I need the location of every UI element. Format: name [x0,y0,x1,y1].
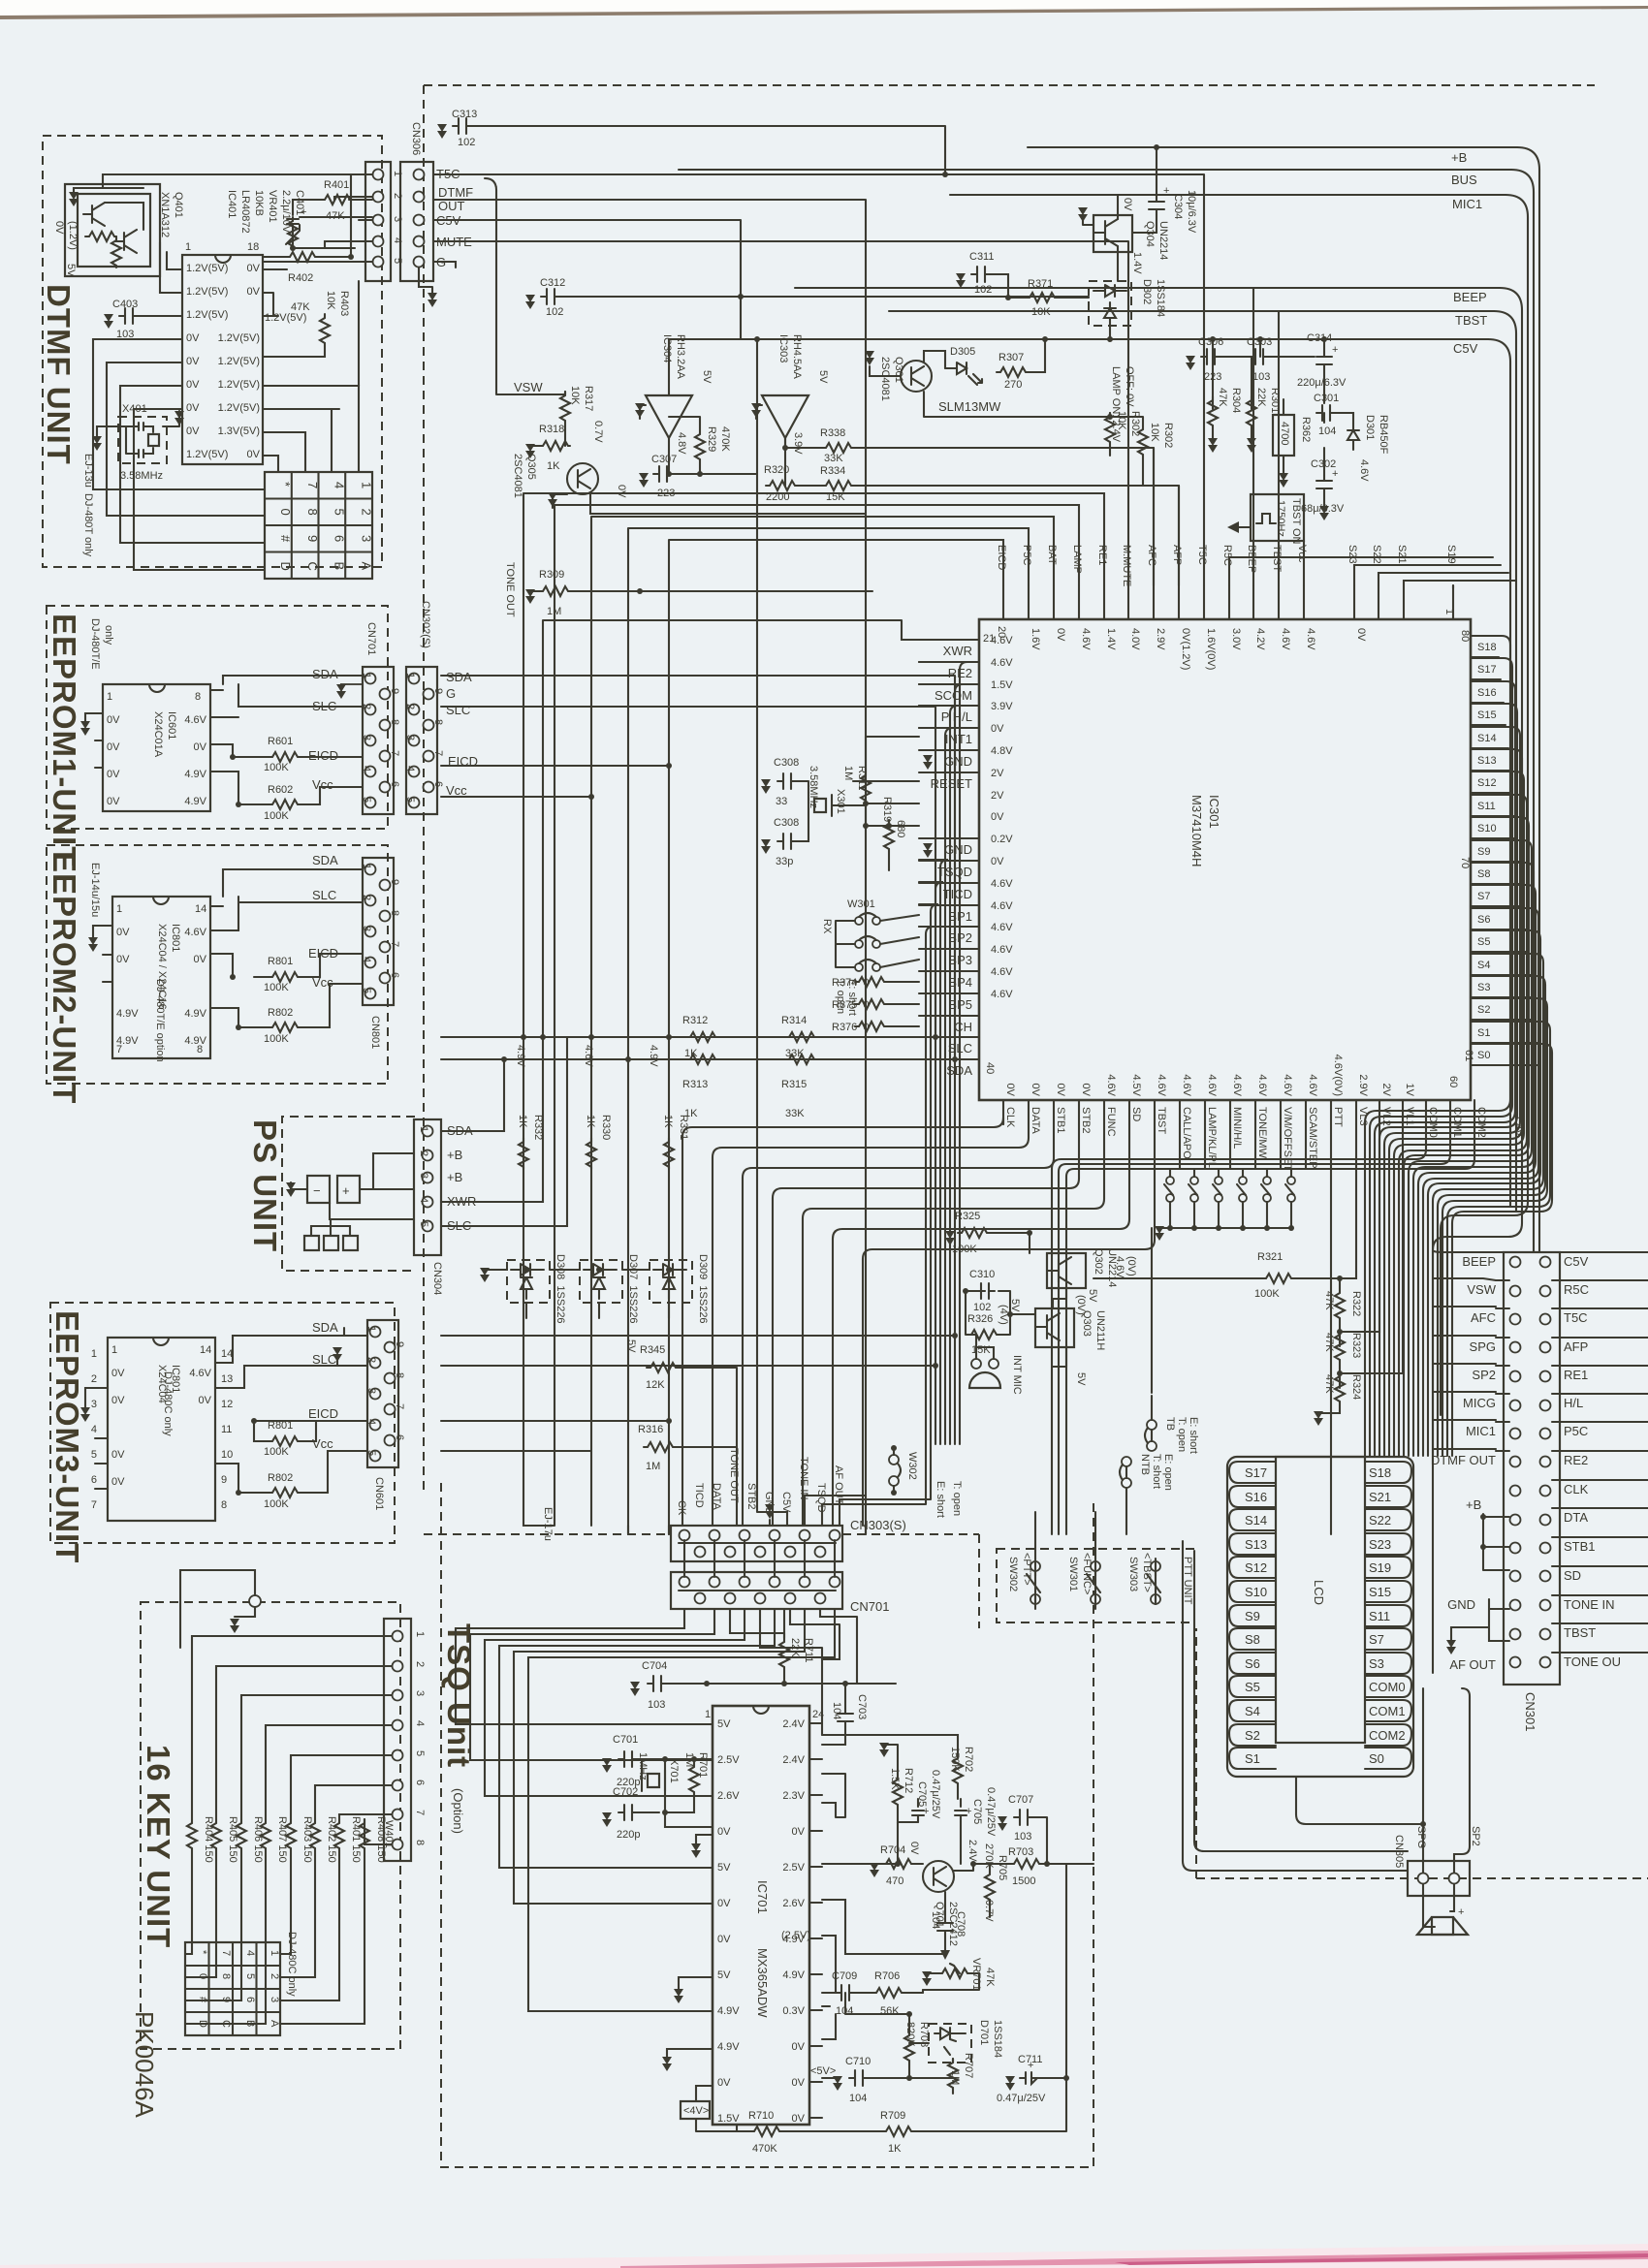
connector CN301 pin row 1 left [1510,1257,1521,1268]
connector CN303 pin bottom 3 [755,1547,766,1558]
wire S8 upper [1413,863,1534,1456]
svg-text:47K: 47K [1323,1333,1335,1352]
wire W302 stubs [893,1448,895,1493]
svg-text:9: 9 [305,535,320,542]
wire DTMF OUT inside [334,197,372,200]
svg-text:10μ/6.3V: 10μ/6.3V [1186,190,1197,234]
svg-text:SLC: SLC [312,888,336,902]
junction dots eeprom2 [236,1024,241,1030]
svg-text:DTMF UNIT: DTMF UNIT [41,284,77,465]
svg-text:GND: GND [1447,1597,1475,1612]
svg-text:R317: R317 [583,386,594,411]
wire G net [434,262,456,268]
svg-text:R321: R321 [1257,1251,1283,1263]
connector CN302S pin 5 [409,798,420,808]
connector CN301 pin row 2 right [1540,1286,1551,1297]
connector CN302S pin 3 [409,736,420,746]
wire stub pin TICD [919,882,979,884]
wire C703 [822,1684,845,1745]
svg-text:C307: C307 [651,454,677,465]
svg-text:3.9V: 3.9V [991,701,1013,712]
svg-text:R407 150: R407 150 [276,1816,288,1863]
svg-text:470: 470 [886,1875,903,1887]
svg-text:S15: S15 [1369,1585,1391,1599]
svg-text:104: 104 [930,1911,941,1929]
wire top pin AFC [1153,585,1155,619]
connector CN301 pin row 4 right [1540,1342,1551,1353]
svg-text:R408 150: R408 150 [375,1816,387,1863]
wire TB link [1151,1228,1153,1441]
svg-text:R801: R801 [268,956,293,967]
connector CN701 pin top 3 [740,1577,750,1588]
svg-text:C707: C707 [1008,1794,1033,1806]
diode pair D309 1SS226 [650,1260,692,1303]
svg-text:S0: S0 [1477,1050,1490,1061]
svg-text:IC801: IC801 [170,1365,181,1393]
ground at CN303 GND pin [765,1504,775,1519]
IC IC301 M37410M4H body [979,619,1471,1100]
box 4V [681,2101,710,2119]
wire stub pin RESET [919,772,979,773]
wire VL3 to R321 [1340,1272,1356,1278]
wire bottom pin DATA [1028,1100,1030,1124]
svg-text:S10: S10 [1245,1585,1267,1599]
svg-text:4.6V: 4.6V [1231,1074,1243,1096]
ground EEPROM3 [80,1407,90,1422]
wire AF OUT link [840,1444,931,1526]
svg-text:2: 2 [392,193,403,199]
wire from CN301 DTA [1552,1507,1648,1509]
svg-text:Vcc: Vcc [446,783,467,798]
svg-text:0V: 0V [186,402,200,414]
connector CN701 pin bottom 4 [785,1593,796,1604]
wire battery [291,1182,307,1189]
svg-text:SP2: SP2 [1472,1368,1496,1382]
svg-text:C701: C701 [613,1734,638,1746]
svg-text:E: open: E: open [1162,1454,1174,1491]
ground at IC301 pin GND [923,755,933,770]
svg-text:S10: S10 [1477,823,1497,835]
connector CN301 pin row 11 right [1540,1543,1551,1554]
wire CN303 pin to CN701 5 [804,1540,806,1577]
svg-text:1.3V(5V): 1.3V(5V) [218,425,260,437]
svg-text:4.9V: 4.9V [782,1969,805,1981]
connector CN303 pin top 6 [830,1530,840,1541]
wire key col 8 route [280,1935,364,2024]
wire S8 lower [1471,883,1522,885]
svg-text:CN302(S): CN302(S) [420,601,431,648]
svg-text:4.6V: 4.6V [1280,628,1291,650]
wire top pin T5C [1203,585,1205,619]
svg-text:CN301: CN301 [1523,1692,1537,1731]
svg-text:T: open: T: open [1176,1417,1188,1452]
svg-text:8: 8 [394,1372,405,1378]
svg-text:STB2: STB2 [1080,1107,1092,1134]
resistor R401 150 [334,1819,344,1850]
svg-text:EICD: EICD [308,748,338,763]
keypad 16key DTMF [265,472,372,579]
wire Q301 emitter to R302 [924,392,1110,456]
svg-text:R316: R316 [638,1424,663,1435]
connector CN801 pin 1 [365,865,376,875]
wire into CN301 VSW [1496,1279,1509,1281]
transistor Q303 UN211H [1035,1308,1074,1347]
svg-text:4: 4 [361,957,372,962]
svg-text:S13: S13 [1245,1537,1267,1552]
svg-text:5: 5 [91,1449,97,1461]
svg-text:12K: 12K [646,1379,665,1391]
connector pin row 5 [373,257,384,268]
wire from CN301 RE1 [1552,1365,1648,1367]
svg-text:R318: R318 [539,424,564,435]
connector pin row 3 [373,215,384,226]
svg-text:R325: R325 [955,1211,980,1222]
wire C312 line [560,296,1089,298]
wire S11 upper [1399,795,1527,1456]
wire R704 Q701 [874,1864,1010,1871]
wire bottom pin STB2 [1078,1100,1080,1124]
svg-text:5V: 5V [701,370,713,384]
svg-text:Vcc: Vcc [1296,545,1308,563]
svg-text:3: 3 [91,1399,97,1410]
svg-text:S9: S9 [1245,1609,1260,1623]
svg-text:2.2μ/10V: 2.2μ/10V [280,190,292,234]
svg-text:1K: 1K [547,460,560,472]
wire AFC feeder [1153,448,1155,585]
svg-text:18: 18 [247,241,259,253]
svg-text:1: 1 [705,1709,711,1720]
svg-text:5V: 5V [1087,1289,1098,1303]
connector CN303 pin bottom 1 [695,1547,706,1558]
svg-text:0V: 0V [1122,198,1133,211]
svg-text:1.6V: 1.6V [1030,628,1041,650]
resistor R323 47K vertical [1335,1331,1345,1362]
svg-text:0V: 0V [908,1842,920,1855]
svg-text:0V: 0V [792,1826,806,1838]
svg-text:MICG: MICG [1463,1396,1496,1410]
svg-text:S23: S23 [1369,1537,1391,1552]
connector CN304 body [414,1119,441,1255]
svg-text:470K: 470K [719,426,731,452]
svg-text:470K: 470K [752,2143,777,2155]
wire gnd R309 [530,590,539,592]
connector CN303 pin bottom 4 [785,1547,796,1558]
svg-text:103: 103 [648,1699,665,1711]
svg-text:VR401: VR401 [267,190,278,223]
connector CN302S pin 8 [424,720,434,731]
wire SW301 up [1094,1512,1096,1609]
LCD segment box S10 [1229,1581,1276,1602]
svg-text:BEEP: BEEP [1462,1254,1496,1269]
wire Q401 top [74,188,143,230]
wire top pin BAT [1053,585,1055,619]
wire R chain [1318,1320,1347,1413]
connector CN305 pin SPG [1418,1874,1429,1884]
svg-text:5V: 5V [625,1339,637,1353]
wire MUTE net [434,241,1128,585]
wire C313 to T5C line [472,126,945,174]
svg-text:8: 8 [197,1044,203,1055]
wire DTMF drop end [865,1526,867,1534]
svg-text:10K: 10K [1031,306,1051,318]
wire SLC from CN302 [441,707,935,1037]
svg-text:COM1: COM1 [1369,1704,1406,1718]
svg-text:IC801: IC801 [170,924,181,952]
LCD segment box S17 [1229,1462,1276,1483]
svg-text:102: 102 [458,137,475,148]
svg-text:0V: 0V [1355,628,1367,642]
wire SDA long [441,1058,919,1060]
wire stub pin RE2 [919,661,979,663]
svg-text:0V: 0V [991,811,1004,823]
svg-text:0V: 0V [792,2077,806,2089]
wire S14 lower [1471,747,1508,749]
wire from CN301 AFP [1552,1337,1648,1339]
wire S7 upper [1418,885,1536,1456]
ground right of X401 [174,411,184,425]
svg-text:W302: W302 [906,1452,918,1480]
wire key col 7 route [280,1927,339,2000]
svg-text:S1: S1 [1477,1027,1490,1039]
svg-text:4.6V: 4.6V [1080,628,1092,650]
svg-text:TSQ Unit: TSQ Unit [441,1623,477,1768]
wire stub pin BP4 [919,970,979,972]
wire stub pin GND [919,837,979,839]
svg-text:S13: S13 [1477,755,1497,767]
wire R402 to W401 pin [315,1785,392,1819]
wire R407 to W401 pin [266,1725,392,1819]
wire battery to CN304 [311,1153,414,1236]
svg-text:4: 4 [91,1424,97,1435]
svg-text:VSW: VSW [1467,1282,1496,1297]
svg-text:0V: 0V [991,856,1004,867]
junction dots eeprom1 [236,802,241,807]
ground at SLC [333,1347,342,1362]
svg-text:2.9V: 2.9V [1155,628,1166,650]
connector CN601 pin 6 [385,1435,396,1446]
wire S6 upper [1423,908,1538,1456]
ground PS [286,1182,296,1197]
connector CN302S pin 7 [424,751,434,762]
svg-text:4.6V: 4.6V [1307,1074,1318,1096]
svg-text:C703: C703 [856,1694,868,1719]
svg-text:80: 80 [1459,630,1471,642]
svg-text:4.0V: 4.0V [1129,628,1141,650]
wire R5C feeder [1229,557,1493,585]
wire VR701 to R706 [907,1990,923,1993]
svg-text:0V: 0V [111,1395,125,1406]
wire TSQ left loop 6 [528,1609,835,2011]
svg-text:9: 9 [432,688,444,694]
svg-text:S18: S18 [1369,1465,1391,1480]
svg-text:2: 2 [404,704,416,709]
svg-text:SW302: SW302 [1007,1557,1019,1591]
wire S3 upper [1438,976,1545,1456]
svg-text:R312: R312 [682,1015,708,1026]
svg-text:1: 1 [392,171,403,176]
wire top pin S23 [1353,585,1355,619]
svg-text:100K: 100K [264,1446,289,1458]
PTT UNIT dashed box [997,1549,1194,1622]
svg-text:V/M/OFFSET: V/M/OFFSET [1282,1107,1293,1171]
wire C711 up [1043,1864,1066,2078]
svg-text:1: 1 [414,1631,426,1637]
svg-text:T5C: T5C [1196,545,1208,565]
wire C5V cluster [1213,339,1353,508]
wire R307 to C5V [1028,339,1045,372]
pin stub IC701 row 8 [809,1973,822,1975]
wire R401 to C401 [293,200,372,248]
wire key col 2 down [185,1888,216,1977]
svg-text:1K: 1K [517,1115,528,1128]
svg-text:C313: C313 [452,109,477,120]
svg-text:R326: R326 [967,1313,993,1325]
svg-text:S3: S3 [1369,1656,1384,1671]
wire C5V drop to IC304 [668,339,670,395]
svg-text:2V: 2V [991,790,1004,802]
svg-text:3: 3 [392,216,403,222]
wire C5V from CN306 [434,220,741,339]
svg-text:TB: TB [1164,1417,1176,1431]
svg-text:EJ-17u: EJ-17u [542,1507,554,1541]
wire S2 upper [1442,998,1547,1456]
connector CN601 pin 3 [370,1389,381,1400]
wire SLC eeprom1 [210,684,363,717]
LCD segment box S9 [1229,1605,1276,1626]
svg-text:8: 8 [414,1840,426,1845]
svg-text:1: 1 [269,1950,280,1956]
connector CN801 pin 2 [365,896,376,906]
LCD segment box S4 [1229,1700,1276,1721]
wire LCD bottom to CN305 [1296,1777,1423,1824]
svg-text:<5V>: <5V> [810,2065,836,2077]
svg-text:DTMF: DTMF [438,185,473,200]
resistor R374 0 [855,977,886,987]
wire into CN301 MIC1 [1496,1421,1509,1423]
svg-text:70: 70 [1459,857,1471,868]
wire from CN301 R5C [1552,1279,1648,1281]
connector CN304 pin 5 SLC [423,1221,433,1232]
svg-text:S22: S22 [1371,545,1382,564]
wire CN701 feed2 [760,1609,822,1735]
svg-text:S17: S17 [1477,664,1497,676]
svg-text:0V: 0V [199,1395,212,1406]
svg-text:1: 1 [365,1326,377,1332]
wire EICD eeprom3 right [441,1420,669,1422]
wire stub pin P H/L [919,705,979,707]
svg-text:S8: S8 [1245,1632,1260,1647]
wire key column 2 [215,1850,217,1888]
svg-text:33K: 33K [785,1108,805,1119]
connector CN303 pin top 2 [710,1530,720,1541]
wire R708 D701 [845,1993,953,2094]
wire Q304 base stub [1083,219,1093,225]
svg-text:R374 0: R374 0 [832,977,870,989]
wire into CN301 SP2 [1496,1365,1509,1367]
wire S21 feeder [1404,581,1516,585]
wire S22 feeder [1379,573,1508,585]
svg-text:EEPROM2-UNIT: EEPROM2-UNIT [47,851,82,1104]
connector CN302S pin 6 [424,782,434,793]
wire C311 to R371 [991,274,1026,298]
switch pad pair 2 [1190,1177,1198,1184]
wire IC301 left pin drop 4 [919,728,953,1444]
IC IC401 LR40872 body [182,255,263,464]
svg-text:BEEP: BEEP [1453,290,1487,304]
wire bottom pin VL2 [1379,1100,1380,1124]
svg-text:S5: S5 [1477,936,1490,948]
svg-text:+: + [966,1806,971,1817]
svg-text:R703: R703 [1008,1846,1033,1858]
svg-text:1: 1 [359,482,373,488]
svg-text:4.9V: 4.9V [184,1008,206,1020]
wire S4 lower [1471,974,1532,976]
connector CN601 pin 2 [370,1358,381,1369]
connector CN304 pin 3 +B [423,1173,433,1183]
wire arrow TBST [1239,526,1251,528]
wire top pin S19 [1452,585,1454,619]
LCD segment box S16 [1229,1486,1276,1507]
svg-text:TICD: TICD [943,887,972,901]
svg-text:A: A [359,562,373,571]
svg-text:0V(1.2V): 0V(1.2V) [1180,628,1191,670]
pin stub IC701 row 12 [809,2117,822,2119]
svg-text:X24C04: X24C04 [156,1365,168,1403]
connector CN701 pin 5 [365,798,376,808]
connector pin row 2 [373,192,384,203]
svg-text:(0V): (0V) [1125,1256,1137,1276]
wire S5 upper [1428,930,1540,1456]
svg-text:CN701: CN701 [365,622,377,655]
connector CN301 pin row 13 left [1510,1600,1521,1611]
svg-text:1: 1 [91,1348,97,1360]
svg-text:E: short: E: short [1188,1417,1199,1454]
wire S15 lower [1471,724,1505,726]
connector CN304 pin 4 XWR [423,1197,433,1208]
svg-text:R371: R371 [1028,278,1053,290]
svg-text:0.3V: 0.3V [782,2005,805,2017]
svg-text:4.6V: 4.6V [991,966,1013,978]
wire key column 5 [290,1850,292,1911]
svg-text:S14: S14 [1477,733,1497,744]
svg-text:R314: R314 [781,1015,807,1026]
wire from CN301 H/L [1552,1393,1648,1395]
svg-text:4.5V: 4.5V [1130,1074,1142,1096]
wire BAT feeder [591,517,1054,1473]
svg-text:0V: 0V [111,1476,125,1488]
svg-text:4.6V: 4.6V [991,900,1013,912]
svg-text:4.6V: 4.6V [583,1045,594,1067]
svg-text:STB1: STB1 [1055,1107,1066,1134]
jumper W301 loop 3 [855,963,863,971]
wire P5C feeder [628,528,1029,1534]
svg-text:7: 7 [432,750,444,756]
svg-text:3: 3 [414,1690,426,1696]
resistor inside Q401 [85,232,116,241]
svg-text:E: short: E: short [935,1481,946,1518]
wire PTT down [1330,1124,1332,1534]
wire C304 to +B and Q304 [1132,147,1157,233]
svg-text:5: 5 [418,1221,429,1227]
svg-text:4.6V: 4.6V [991,989,1013,1000]
connector CN306 [400,162,433,281]
wire EICD feeder [669,540,1003,1534]
wire IC304 gnd [640,405,646,419]
wire stub pin SLC [919,1036,979,1038]
connector CN302S pin 4 [409,767,420,777]
svg-text:0V: 0V [991,723,1004,735]
svg-text:CLK: CLK [1564,1482,1589,1496]
